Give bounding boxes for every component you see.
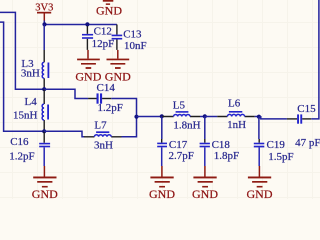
wire (C14 to right vertical) [111,99,136,117]
junction dot (L3/L4 node) [42,87,46,91]
capacitor C14 [88,82,123,114]
svg-text:GND: GND [192,187,218,199]
wire (node to L6) [205,116,217,118]
capacitor C17 [157,139,194,166]
svg-text:L7: L7 [94,119,107,131]
wire (C19 drop) [258,117,260,139]
junction dot (C18 tap) [203,114,207,118]
wire (C15 to right edge, up) [311,0,319,119]
svg-text:1nH: 1nH [227,119,246,131]
svg-text:3nH: 3nH [21,68,40,80]
svg-text:1.8pF: 1.8pF [214,150,239,162]
svg-text:L4: L4 [25,96,38,108]
svg-text:GND: GND [247,187,273,199]
wire (C18 drop) [204,117,206,140]
svg-text:15nH: 15nH [13,110,38,122]
inductor L6 [217,97,255,131]
wire (node to L5) [137,116,162,118]
wire (3V3 rail to C12/C13) [44,24,117,26]
ground (below C13) [105,50,131,83]
wire (L5 to C18 node) [200,116,205,118]
ground (below C12) [75,50,101,83]
power port 3V3 [35,3,53,21]
inductor L3 [21,50,49,89]
wire (node to L7 branch) [44,131,84,137]
wire (L6 to C19 node) [255,116,259,118]
svg-text:3nH: 3nH [94,140,113,152]
capacitor C15 [287,103,320,149]
ground (below C18) [192,166,218,201]
capacitor C19 [254,139,294,166]
wire (left entry lower, to L4/C16 node) [0,22,44,131]
inductor L7 [84,119,122,151]
junction dot (C19 tap) [257,115,261,119]
wire (left entry upper, to L3/L4 node) [0,12,44,89]
capacitor C16 [9,131,50,166]
capacitor C18 [200,139,239,166]
ground (below C17) [149,166,175,201]
svg-text:47 pF: 47 pF [295,137,320,149]
svg-text:2.7pF: 2.7pF [169,150,194,162]
svg-text:GND: GND [149,187,175,199]
svg-text:1.2pF: 1.2pF [98,102,123,114]
capacitor C13 [112,25,147,53]
junction dot (3V3 node) [42,22,46,26]
svg-text:C13: C13 [123,28,142,40]
svg-text:C14: C14 [97,82,116,94]
svg-text:12pF: 12pF [92,38,115,50]
svg-text:L6: L6 [228,97,241,109]
capacitor C12 [82,25,114,50]
ground (below C16) [32,166,58,201]
wire (node jog to C15) [259,117,287,119]
svg-text:1.5pF: 1.5pF [268,151,293,163]
wire (node to C14 branch) [44,89,88,98]
wire (L7 to right vertical and up to rail) [122,117,137,137]
svg-text:GND: GND [32,187,58,199]
junction dot (L4/C16 node) [42,129,46,133]
inductor L4 [13,89,48,131]
wire (C17 drop) [161,117,163,140]
inductor L5 [162,99,201,131]
svg-text:C19: C19 [267,139,286,151]
svg-text:C16: C16 [10,136,29,148]
wire (3V3 stem to node) [43,21,45,25]
ground (below C19) [247,166,273,201]
svg-text:GND: GND [96,4,122,18]
svg-text:C15: C15 [297,103,316,115]
junction dot (C14/L7 node) [134,115,138,119]
svg-text:C12: C12 [94,25,112,37]
junction dot (C12 tap) [85,22,89,26]
ground (top edge, cut off) [96,0,122,18]
svg-text:1.2pF: 1.2pF [9,151,34,163]
svg-text:1.8nH: 1.8nH [173,119,200,131]
svg-text:L5: L5 [173,99,186,111]
junction dot (C17 tap) [160,114,164,118]
wire (node to L3 top) [43,25,45,51]
svg-text:10nF: 10nF [124,40,147,52]
